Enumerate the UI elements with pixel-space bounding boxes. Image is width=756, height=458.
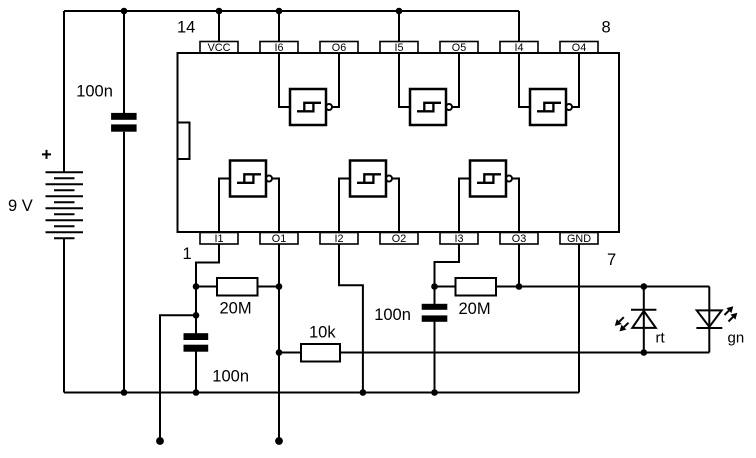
wire pin I3 to node B xyxy=(435,244,460,287)
schmitt trigger gate U1E (I5-O5) xyxy=(399,53,459,125)
svg-text:O3: O3 xyxy=(512,233,526,245)
LED D2 green (gn) xyxy=(696,287,722,353)
svg-text:14: 14 xyxy=(177,19,195,37)
svg-text:O5: O5 xyxy=(452,42,466,54)
svg-text:O6: O6 xyxy=(332,42,346,54)
junction dot node A xyxy=(193,283,200,290)
schmitt trigger gate U1A (I1-O1) xyxy=(219,161,279,233)
svg-text:100n: 100n xyxy=(76,83,113,101)
svg-text:20M: 20M xyxy=(459,300,491,318)
wire bottom ground rail xyxy=(64,392,579,394)
pin O1 xyxy=(260,233,298,245)
capacitor C3 100n xyxy=(422,304,448,310)
junction dot C1 ground rail xyxy=(121,389,128,396)
wire C1 bottom lead to ground rail xyxy=(123,132,125,393)
wire O3 node to LED cathodes xyxy=(519,286,709,288)
wire pin I2 to ground rail xyxy=(339,244,363,393)
wire C1 top lead xyxy=(123,11,125,113)
wire pin O3 down xyxy=(518,244,520,287)
op-amp IC U1 body (hex Schmitt trigger) xyxy=(178,53,620,232)
wire top VCC rail xyxy=(64,10,519,12)
svg-text:gn: gn xyxy=(728,330,745,347)
svg-text:rt: rt xyxy=(656,330,666,347)
resistor R1 20M xyxy=(196,286,217,288)
resistor R3 20M xyxy=(435,286,456,288)
junction dot O1 to R2 xyxy=(276,349,283,356)
probe terminal dot O1 xyxy=(275,437,283,445)
capacitor C3 100n leads xyxy=(434,287,436,393)
svg-text:1: 1 xyxy=(183,245,192,263)
pin VCC xyxy=(200,42,238,54)
capacitor C2 100n leads xyxy=(195,287,197,393)
LED D1 emission arrows xyxy=(615,317,629,331)
pin O4 xyxy=(560,42,598,54)
svg-text:O2: O2 xyxy=(392,233,406,245)
junction dot node A branch xyxy=(193,312,200,319)
pin I6 xyxy=(260,42,298,54)
wire pin O1 down to probe point xyxy=(278,244,280,441)
junction dot R1 to O1 wire xyxy=(276,283,283,290)
junction dot LED D1 bottom xyxy=(641,349,648,356)
label battery plus xyxy=(42,150,51,159)
svg-text:10k: 10k xyxy=(309,324,336,342)
junction dot LED D1 top xyxy=(641,283,648,290)
svg-text:9 V: 9 V xyxy=(8,197,33,215)
junction dot O3 node xyxy=(516,283,523,290)
battery BT1 9V xyxy=(46,172,84,238)
junction dot C2 ground rail xyxy=(193,389,200,396)
junction dot top rail at VCC xyxy=(216,8,223,15)
svg-text:7: 7 xyxy=(607,251,616,269)
pin I2 xyxy=(320,233,358,245)
svg-text:O1: O1 xyxy=(272,233,286,245)
pin O3 xyxy=(500,233,538,245)
svg-text:I4: I4 xyxy=(514,42,523,54)
pin O6 xyxy=(320,42,358,54)
wire battery positive to top rail xyxy=(63,11,65,172)
schmitt trigger gate U1C (I3-O3) xyxy=(459,161,519,233)
pin O5 xyxy=(440,42,478,54)
wire top rail down to pin I5 xyxy=(398,11,400,42)
svg-text:I6: I6 xyxy=(274,42,283,54)
LED D1 red (rt) xyxy=(631,287,656,353)
capacitor C1 100n xyxy=(111,113,137,120)
junction dot top rail at I5 xyxy=(396,8,403,15)
wire pin I1 to node A xyxy=(196,244,219,287)
svg-text:I2: I2 xyxy=(334,233,343,245)
svg-text:I5: I5 xyxy=(394,42,403,54)
wire top rail down to pin I6 xyxy=(278,11,280,42)
pin O2 xyxy=(380,233,418,245)
junction dot C3 ground rail xyxy=(431,389,438,396)
svg-text:GND: GND xyxy=(567,233,591,245)
svg-text:I1: I1 xyxy=(214,233,223,245)
capacitor C2 100n xyxy=(184,333,209,340)
wire battery negative down xyxy=(63,238,65,392)
svg-text:100n: 100n xyxy=(212,367,249,385)
junction dot top rail at I6 xyxy=(276,8,283,15)
wire top rail down to pin I4 xyxy=(518,11,520,42)
probe terminal dot left xyxy=(156,437,164,445)
pin I3 xyxy=(440,233,478,245)
junction dot node B xyxy=(431,283,438,290)
svg-text:O4: O4 xyxy=(572,42,586,54)
wire pin GND to ground rail xyxy=(578,244,580,393)
svg-text:I3: I3 xyxy=(454,233,463,245)
wire top rail down to pin VCC xyxy=(218,11,220,42)
svg-text:20M: 20M xyxy=(220,300,252,318)
svg-text:VCC: VCC xyxy=(208,42,231,54)
wire node A branch to probe point xyxy=(160,315,196,441)
pin I1 xyxy=(200,233,238,245)
junction dot I2 ground rail xyxy=(360,389,367,396)
junction dot top rail at C1 xyxy=(121,8,128,15)
svg-text:8: 8 xyxy=(602,19,611,37)
pin GND xyxy=(560,233,598,245)
svg-text:100n: 100n xyxy=(374,306,411,324)
pin I5 xyxy=(380,42,418,54)
schmitt trigger gate U1F (I6-O6) xyxy=(279,53,339,125)
schmitt trigger gate U1D (I4-O4) xyxy=(519,53,579,125)
schmitt trigger gate U1B (I2-O2) xyxy=(339,161,399,233)
IC U1 left-edge notch xyxy=(178,123,190,160)
LED D2 emission arrows xyxy=(725,306,738,321)
resistor R2 10k xyxy=(279,352,301,354)
wire R2 to LED anodes xyxy=(340,352,709,354)
pin I4 xyxy=(500,42,538,54)
